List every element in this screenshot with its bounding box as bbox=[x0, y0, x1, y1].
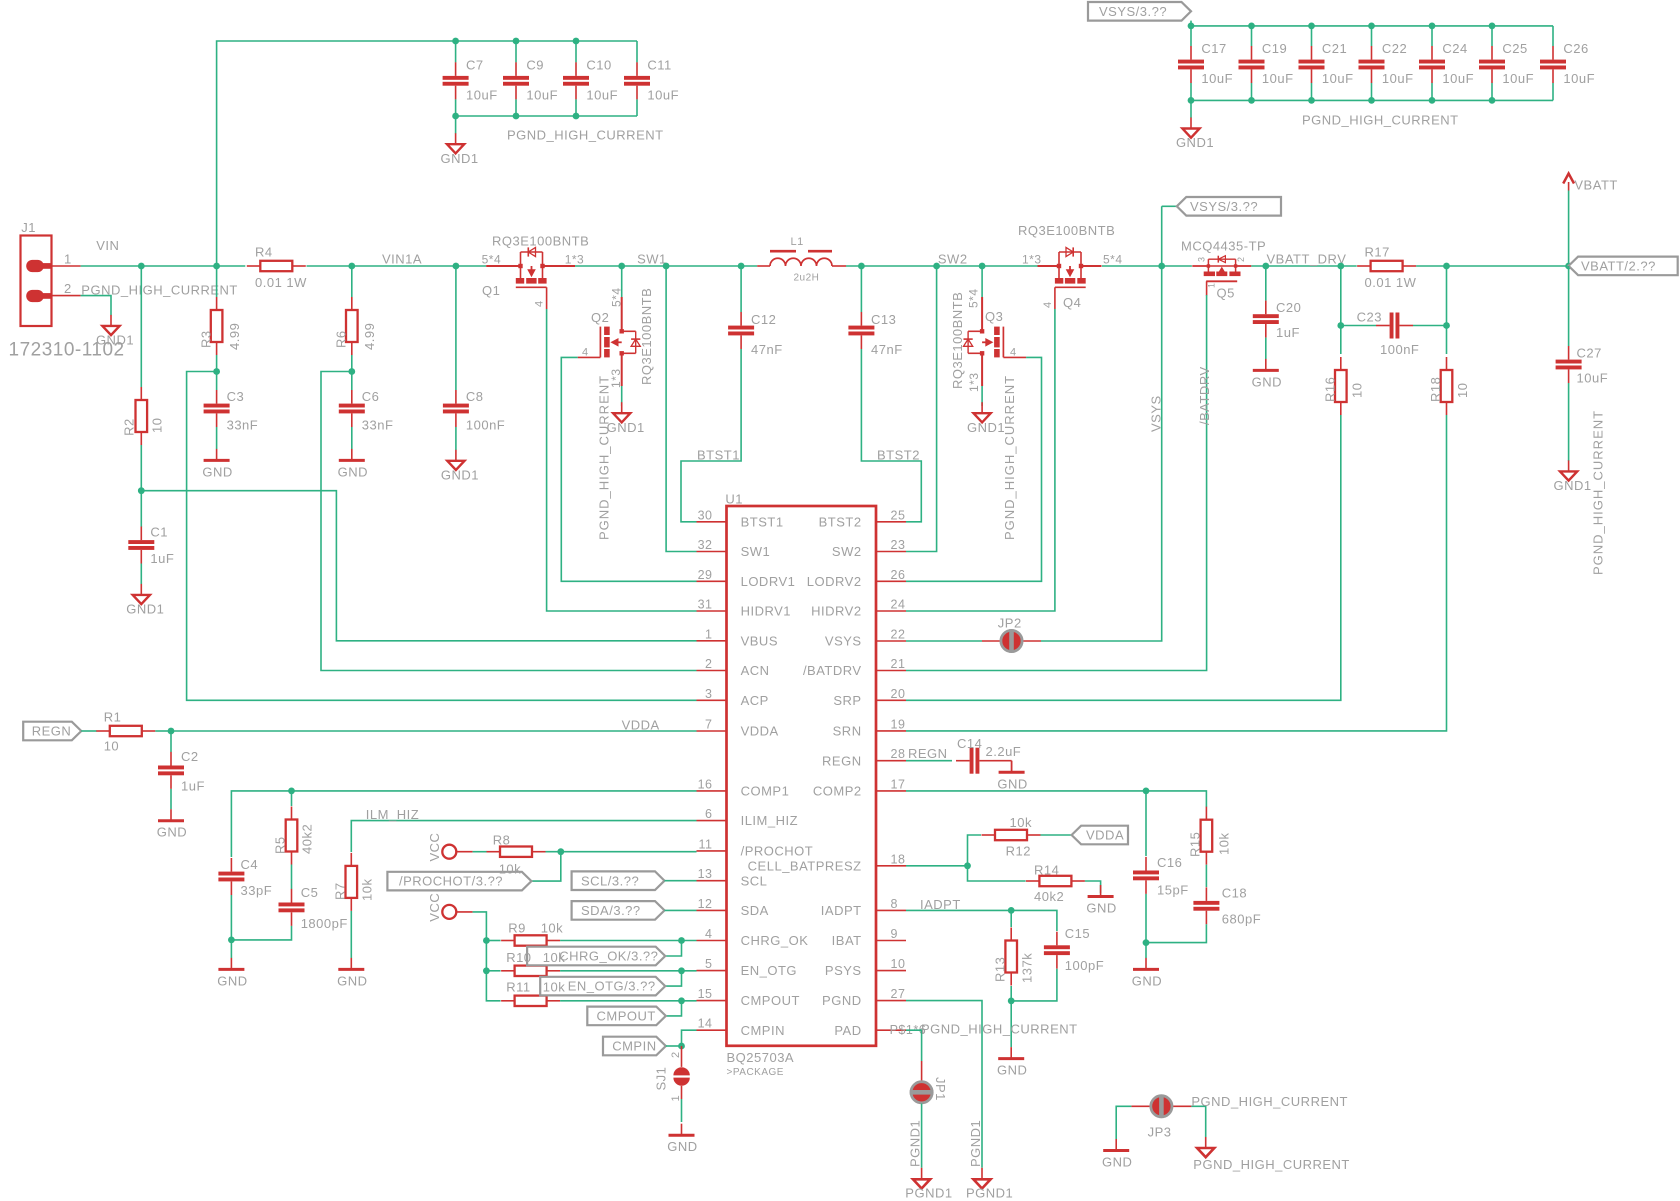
net label ILM_HIZ bbox=[366, 807, 419, 822]
svg-text:C2: C2 bbox=[181, 749, 199, 764]
svg-text:VCC: VCC bbox=[427, 833, 442, 862]
capacitor C16 bbox=[1133, 855, 1189, 898]
wire VIN to R2 bbox=[140, 266, 142, 387]
svg-text:R18: R18 bbox=[1428, 377, 1443, 402]
jumper JP3 bbox=[1131, 1095, 1191, 1140]
svg-text:10uF: 10uF bbox=[1577, 371, 1609, 386]
wire SDA bbox=[665, 909, 697, 911]
wire VDDA to C2 bbox=[170, 731, 172, 752]
svg-text:R6: R6 bbox=[334, 330, 349, 348]
svg-text:SRP: SRP bbox=[833, 693, 861, 708]
wire VIN top rail to C7-C11 bank bbox=[217, 41, 637, 266]
svg-text:ILIM_HIZ: ILIM_HIZ bbox=[741, 813, 798, 828]
svg-text:C23: C23 bbox=[1357, 309, 1382, 324]
resistor R13 bbox=[993, 928, 1035, 986]
svg-text:10uF: 10uF bbox=[1322, 71, 1354, 86]
svg-text:ILM_HIZ: ILM_HIZ bbox=[366, 807, 419, 822]
flag CMPIN bbox=[603, 1037, 666, 1056]
svg-text:Q4: Q4 bbox=[1063, 295, 1081, 310]
wire C2 to GND bbox=[170, 789, 172, 809]
svg-text:C12: C12 bbox=[751, 312, 776, 327]
wire C19 top stub bbox=[1251, 26, 1253, 46]
wire C7-C11 bottom rail bbox=[456, 115, 637, 117]
svg-text:COMP1: COMP1 bbox=[741, 784, 790, 799]
pin 17 COMP2 bbox=[813, 777, 906, 798]
ground GND under R7 bbox=[337, 958, 367, 989]
svg-text:C1: C1 bbox=[150, 525, 168, 540]
pin 11 /PROCHOT bbox=[697, 837, 814, 858]
wire JP3 to GND bbox=[1116, 1106, 1131, 1139]
svg-text:14: 14 bbox=[698, 1017, 713, 1031]
wire R1 to VDDA junction bbox=[155, 730, 171, 732]
svg-text:2u2H: 2u2H bbox=[794, 273, 820, 284]
resistor R8 bbox=[487, 832, 546, 857]
net label VIN bbox=[96, 238, 119, 253]
wire Q2 gate to LODRV1 bbox=[561, 357, 696, 581]
pin 27 PGND bbox=[822, 987, 906, 1008]
svg-text:5*4: 5*4 bbox=[1103, 252, 1123, 266]
svg-text:PGND1: PGND1 bbox=[908, 1120, 923, 1167]
wire VIN bbox=[81, 265, 246, 267]
svg-text:100pF: 100pF bbox=[1065, 958, 1104, 973]
junction C23 right bbox=[1443, 322, 1450, 329]
ground GND under C6 bbox=[338, 449, 368, 480]
svg-text:C11: C11 bbox=[647, 58, 671, 73]
svg-text:100nF: 100nF bbox=[466, 417, 505, 432]
svg-text:4.99: 4.99 bbox=[227, 323, 242, 350]
junction bbox=[1188, 23, 1195, 104]
svg-text:VIN1A: VIN1A bbox=[382, 252, 422, 267]
svg-text:BQ25703A: BQ25703A bbox=[727, 1050, 795, 1065]
wire Q1 gate to HIDRV1 bbox=[547, 309, 697, 611]
capacitor C12 bbox=[728, 312, 783, 357]
wire C26 top stub bbox=[1552, 26, 1554, 46]
wire C25 top stub bbox=[1491, 26, 1493, 46]
net label VDDA bbox=[622, 717, 660, 732]
wire R7 to GND bbox=[350, 911, 352, 958]
ground arrow PGND1 (right) bbox=[966, 1168, 1013, 1201]
svg-text:R10: R10 bbox=[506, 950, 531, 965]
svg-text:40k2: 40k2 bbox=[300, 824, 315, 854]
svg-text:VSYS: VSYS bbox=[825, 634, 862, 649]
wire C21 top stub bbox=[1311, 26, 1313, 46]
svg-text:10uF: 10uF bbox=[526, 87, 558, 102]
junction bbox=[1308, 23, 1315, 104]
pin 18 CELL_BATPRESZ bbox=[748, 852, 906, 873]
junction VIN/R3-toprail bbox=[213, 263, 220, 270]
junction CELL bbox=[964, 862, 971, 869]
svg-text:GND: GND bbox=[1086, 901, 1116, 916]
svg-text:PGND1: PGND1 bbox=[968, 1120, 983, 1167]
svg-text:10k: 10k bbox=[543, 950, 565, 965]
svg-text:BTST1: BTST1 bbox=[697, 448, 740, 463]
svg-text:GND: GND bbox=[157, 825, 187, 840]
svg-text:SW2: SW2 bbox=[832, 544, 862, 559]
svg-text:PGND1: PGND1 bbox=[905, 1186, 952, 1201]
pin 30 BTST1 bbox=[697, 508, 784, 529]
svg-text:CMPIN: CMPIN bbox=[612, 1039, 656, 1054]
junction VBATT/R18 bbox=[1443, 263, 1450, 270]
svg-text:VDDA: VDDA bbox=[622, 717, 660, 732]
svg-text:PGND_HIGH_CURRENT: PGND_HIGH_CURRENT bbox=[597, 375, 612, 540]
wire VIN1A bbox=[307, 265, 487, 267]
junction bbox=[1368, 23, 1375, 104]
net label PGND_HIGH_CURRENT (JP3 bottom) bbox=[1193, 1157, 1350, 1172]
svg-text:/BATDRV: /BATDRV bbox=[1197, 366, 1212, 425]
wire VIN to R3 bbox=[216, 266, 218, 297]
wire R10 to EN_OTG bbox=[560, 970, 696, 972]
resistor R2 bbox=[122, 387, 165, 445]
capacitor C24 bbox=[1419, 41, 1474, 86]
wire R13 to rail bbox=[1010, 986, 1012, 1047]
svg-text:GND: GND bbox=[1132, 973, 1162, 988]
pin 1 VBUS bbox=[697, 627, 779, 648]
svg-text:JP1: JP1 bbox=[933, 1077, 948, 1101]
junction CMPOUT bbox=[678, 997, 685, 1004]
svg-text:16: 16 bbox=[698, 777, 713, 791]
supply VCC (1) bbox=[427, 833, 473, 862]
wire CHRG_OK to flag bbox=[665, 941, 681, 957]
junction SW1/pin32 bbox=[663, 263, 670, 270]
svg-text:10uF: 10uF bbox=[1382, 71, 1414, 86]
svg-text:R9: R9 bbox=[508, 921, 526, 936]
svg-text:33nF: 33nF bbox=[362, 417, 394, 432]
svg-text:10k: 10k bbox=[541, 921, 563, 936]
wire SW1 to C12 bbox=[740, 266, 742, 312]
svg-text:3: 3 bbox=[1197, 256, 1207, 262]
pin 28 REGN bbox=[822, 747, 906, 768]
ground GND under C3 bbox=[202, 449, 232, 480]
capacitor C10 bbox=[563, 58, 618, 103]
wire R18 to SRN bbox=[906, 415, 1447, 731]
svg-text:C18: C18 bbox=[1222, 886, 1247, 901]
ground arrow PGND1 (left) bbox=[905, 1168, 952, 1201]
wire Q2 source to GND1 bbox=[621, 386, 623, 406]
wire R13 branch bbox=[1010, 910, 1012, 927]
svg-text:C21: C21 bbox=[1322, 41, 1347, 56]
svg-text:C16: C16 bbox=[1157, 855, 1182, 870]
svg-text:CMPIN: CMPIN bbox=[741, 1023, 785, 1038]
capacitor C13 bbox=[848, 312, 902, 357]
ground GND1 under C1 bbox=[126, 584, 164, 617]
wire VCC1 to R8 bbox=[473, 851, 487, 853]
svg-text:680pF: 680pF bbox=[1222, 912, 1261, 927]
wire IADPT bbox=[906, 910, 1057, 931]
wire C5 to GND rail bbox=[231, 926, 291, 940]
net label BTST2 bbox=[877, 448, 920, 463]
svg-text:VDDA: VDDA bbox=[1086, 828, 1124, 843]
svg-text:10: 10 bbox=[104, 739, 119, 754]
junction CMPIN/SJ1 bbox=[678, 1043, 685, 1050]
svg-text:1: 1 bbox=[64, 251, 72, 266]
svg-text:26: 26 bbox=[891, 568, 906, 582]
wire C15 to rail bbox=[1011, 969, 1057, 1001]
net label PGND1 (vertical right) bbox=[968, 1120, 983, 1167]
svg-text:R12: R12 bbox=[1006, 843, 1031, 858]
ground GND under R13 bbox=[997, 1047, 1027, 1078]
label R11 and value 10k bbox=[506, 979, 565, 994]
svg-text:GND: GND bbox=[667, 1139, 697, 1154]
pin 32 SW1 bbox=[697, 538, 771, 559]
wire C9 bottom stub bbox=[515, 99, 517, 116]
wire C7 top stub bbox=[455, 41, 457, 62]
pin 15 CMPOUT bbox=[697, 987, 800, 1008]
svg-text:R3: R3 bbox=[199, 330, 214, 348]
svg-text:GND: GND bbox=[202, 464, 232, 479]
svg-text:GND1: GND1 bbox=[1176, 135, 1214, 150]
wire VCC2 to resistors bbox=[473, 912, 501, 1001]
svg-text:10uF: 10uF bbox=[586, 87, 618, 102]
wire C17 bottom stub bbox=[1190, 83, 1192, 101]
svg-text:10k: 10k bbox=[360, 879, 375, 901]
pin J1.1 lead bbox=[52, 265, 81, 267]
wire C16 branch bbox=[1145, 791, 1147, 856]
wire C26 bottom stub bbox=[1552, 83, 1554, 101]
wire CELL to R12 bbox=[968, 835, 982, 866]
svg-text:CMPOUT: CMPOUT bbox=[597, 1009, 656, 1024]
svg-text:17: 17 bbox=[891, 777, 906, 791]
ground GND1 under C17 bbox=[1176, 100, 1214, 150]
wire JP1 to PGND1 arrow bbox=[921, 1104, 923, 1168]
transistor Q4 RQ3E100BNTB bbox=[1018, 223, 1123, 310]
svg-text:R13: R13 bbox=[993, 957, 1008, 982]
resistor R5 bbox=[273, 807, 315, 865]
svg-text:10uF: 10uF bbox=[1502, 71, 1534, 86]
wire COMP2 bbox=[906, 791, 1206, 807]
svg-text:/PROCHOT/3.??: /PROCHOT/3.?? bbox=[399, 874, 503, 889]
svg-text:SDA: SDA bbox=[741, 903, 769, 918]
wire CELL to R14 bbox=[968, 866, 1026, 881]
wire CMPOUT to flag bbox=[666, 1001, 682, 1016]
jumper JP2 bbox=[982, 616, 1041, 653]
wire VBATT node bbox=[1416, 265, 1569, 267]
svg-text:Q2: Q2 bbox=[591, 310, 609, 325]
svg-text:J1: J1 bbox=[21, 220, 36, 235]
capacitor C21 bbox=[1299, 41, 1354, 86]
ground GND1 under C7 bank bbox=[441, 116, 479, 166]
svg-text:R16: R16 bbox=[1323, 377, 1338, 402]
junction VDDA/C2 bbox=[168, 728, 175, 735]
flag /PROCHOT/3.?? bbox=[387, 872, 531, 891]
wire C19 bottom stub bbox=[1251, 83, 1253, 101]
svg-text:RQ3E100BNTB: RQ3E100BNTB bbox=[492, 234, 589, 249]
net label PGND_HIGH_CURRENT (J1.2) bbox=[81, 283, 238, 298]
svg-text:LODRV1: LODRV1 bbox=[741, 574, 796, 589]
junction bbox=[452, 38, 459, 120]
junction EN_OTG bbox=[678, 967, 685, 974]
flag VDDA bbox=[1072, 826, 1128, 845]
junction C4/C5 gnd bbox=[228, 937, 235, 944]
svg-text:R1: R1 bbox=[104, 709, 122, 724]
svg-text:/BATDRV: /BATDRV bbox=[803, 663, 862, 678]
resistor R4 bbox=[247, 245, 307, 291]
ground GND1 under J1 pin2 bbox=[96, 315, 134, 348]
svg-text:GND1: GND1 bbox=[967, 420, 1005, 435]
svg-text:C9: C9 bbox=[526, 58, 544, 73]
svg-text:R14: R14 bbox=[1034, 862, 1059, 877]
junction R13/C15 gnd bbox=[1008, 998, 1015, 1005]
net label PGND_HIGH_CURRENT (C27) bbox=[1591, 410, 1606, 575]
capacitor C6 bbox=[339, 389, 394, 432]
junction C16/C18 gnd bbox=[1143, 939, 1150, 946]
junction VBATT_DRV/C20 bbox=[1262, 263, 1269, 270]
capacitor C25 bbox=[1479, 41, 1534, 86]
wire SJ1 to GND bbox=[681, 1099, 683, 1122]
label R10 and value 10k bbox=[506, 950, 565, 965]
ground GND1 under C27 bbox=[1554, 460, 1592, 493]
jumper SJ1 bbox=[654, 1046, 690, 1102]
junction ACN bbox=[348, 368, 355, 375]
pin 22 VSYS bbox=[825, 628, 906, 649]
net label IADPT bbox=[920, 897, 961, 912]
pin 16 COMP1 bbox=[697, 777, 790, 798]
svg-text:PGND: PGND bbox=[822, 993, 862, 1008]
svg-text:11: 11 bbox=[699, 837, 713, 851]
inductor L1 2u2H bbox=[757, 236, 846, 284]
svg-text:1uF: 1uF bbox=[1276, 325, 1300, 340]
svg-text:L1: L1 bbox=[791, 236, 804, 248]
svg-text:C26: C26 bbox=[1563, 41, 1588, 56]
wire C10 bottom stub bbox=[575, 99, 577, 116]
svg-text:1800pF: 1800pF bbox=[301, 916, 348, 931]
wire VBATT to C27 bbox=[1568, 266, 1570, 346]
flag SDA/3.?? bbox=[572, 901, 665, 920]
svg-text:10: 10 bbox=[1455, 383, 1470, 398]
supply arrow VBATT bbox=[1563, 174, 1618, 193]
svg-text:27: 27 bbox=[891, 987, 906, 1001]
wire J1.2 to GND1 bbox=[81, 296, 111, 316]
wire R9 left lead bbox=[486, 940, 500, 942]
wire C16 to gnd rail bbox=[1145, 894, 1147, 958]
svg-text:GND1: GND1 bbox=[126, 602, 164, 617]
pin P$1*6 PAD bbox=[834, 1023, 926, 1038]
svg-text:VIN: VIN bbox=[96, 238, 119, 253]
wire C18 to gnd rail bbox=[1146, 924, 1206, 942]
pin 10 PSYS bbox=[825, 957, 906, 978]
svg-text:10: 10 bbox=[1350, 383, 1365, 398]
svg-text:/PROCHOT: /PROCHOT bbox=[741, 844, 814, 859]
ground GND under C20 bbox=[1252, 359, 1282, 390]
wire ILIM_HIZ bbox=[351, 821, 696, 852]
svg-text:7: 7 bbox=[705, 718, 712, 732]
transistor Q5 MCQ4435-TP bbox=[1181, 239, 1266, 301]
resistor R12 bbox=[982, 815, 1041, 859]
wire R12 to VDDA flag bbox=[1041, 834, 1072, 836]
wire JP3 to PGND arrow bbox=[1191, 1106, 1205, 1137]
ground GND under SJ1 bbox=[667, 1124, 697, 1155]
pin 19 SRN bbox=[833, 717, 906, 738]
pin J1.2 lead bbox=[52, 295, 81, 297]
svg-text:VBATT: VBATT bbox=[1574, 177, 1617, 192]
svg-text:RQ3E100BNTB: RQ3E100BNTB bbox=[950, 292, 965, 389]
wire C25 bottom stub bbox=[1491, 83, 1493, 101]
svg-text:29: 29 bbox=[698, 568, 713, 582]
resistor R14 bbox=[1026, 862, 1085, 904]
svg-text:R15: R15 bbox=[1188, 832, 1203, 857]
wire R10 left lead bbox=[486, 970, 500, 972]
wire SW2 bbox=[846, 265, 1040, 267]
wire C24 top stub bbox=[1431, 26, 1433, 46]
junction VIN/R2 bbox=[138, 263, 145, 270]
svg-text:CMPOUT: CMPOUT bbox=[741, 993, 800, 1008]
svg-text:1uF: 1uF bbox=[150, 551, 174, 566]
svg-text:40k2: 40k2 bbox=[1034, 889, 1064, 904]
svg-text:REGN: REGN bbox=[908, 746, 948, 761]
wire ACN to pin2 bbox=[321, 372, 697, 671]
pin 25 BTST2 bbox=[819, 508, 906, 529]
svg-text:RQ3E100BNTB: RQ3E100BNTB bbox=[1018, 223, 1115, 238]
wire PAD to JP1 bbox=[906, 1030, 922, 1061]
wire C22 bottom stub bbox=[1371, 83, 1373, 101]
wire R2 to C1 junction bbox=[140, 445, 142, 527]
wire C11 top stub bbox=[636, 41, 638, 62]
net label VIN1A bbox=[382, 252, 422, 267]
wire R18 branch bbox=[1446, 266, 1448, 354]
svg-text:23: 23 bbox=[891, 538, 906, 552]
wire R15 to C18 bbox=[1205, 865, 1207, 887]
svg-text:CHRG_OK/3.??: CHRG_OK/3.?? bbox=[559, 949, 658, 964]
svg-text:Q5: Q5 bbox=[1217, 286, 1235, 301]
svg-text:33pF: 33pF bbox=[241, 883, 273, 898]
svg-text:EN_OTG/3.??: EN_OTG/3.?? bbox=[568, 979, 656, 994]
capacitor C9 bbox=[503, 58, 558, 103]
svg-text:C15: C15 bbox=[1065, 926, 1090, 941]
svg-text:31: 31 bbox=[698, 598, 713, 612]
junction SW2/Q3 bbox=[979, 263, 986, 270]
svg-text:30: 30 bbox=[698, 508, 713, 522]
svg-text:1: 1 bbox=[1207, 282, 1217, 288]
flag VSYS/3.?? (mid) bbox=[1162, 197, 1281, 216]
svg-text:CHRG_OK: CHRG_OK bbox=[741, 933, 809, 948]
pin 29 LODRV1 bbox=[697, 568, 796, 589]
wire C22 top stub bbox=[1371, 26, 1373, 46]
svg-text:ACN: ACN bbox=[741, 663, 770, 678]
junction ACP bbox=[213, 368, 220, 375]
ground GND1 under C8 bbox=[441, 450, 479, 483]
wire VIN1A to R6 bbox=[351, 266, 353, 297]
wire C21 bottom stub bbox=[1311, 83, 1313, 101]
svg-text:PGND_HIGH_CURRENT: PGND_HIGH_CURRENT bbox=[921, 1022, 1078, 1037]
svg-text:22: 22 bbox=[891, 628, 906, 642]
svg-text:SJ1: SJ1 bbox=[654, 1067, 669, 1091]
svg-text:R5: R5 bbox=[273, 836, 288, 854]
wire R16 branch bbox=[1340, 266, 1342, 354]
svg-text:24: 24 bbox=[891, 598, 906, 612]
capacitor C5 bbox=[279, 885, 348, 931]
svg-text:Q3: Q3 bbox=[985, 309, 1003, 324]
svg-text:4.99: 4.99 bbox=[362, 323, 377, 350]
capacitor C2 bbox=[158, 749, 205, 793]
svg-text:2: 2 bbox=[670, 1051, 682, 1058]
svg-text:REGN: REGN bbox=[32, 724, 72, 739]
junction SW2/C13 bbox=[858, 263, 865, 270]
svg-text:PGND1: PGND1 bbox=[966, 1186, 1013, 1201]
resistor R18 bbox=[1428, 357, 1470, 415]
wire C24 bottom stub bbox=[1431, 83, 1433, 101]
svg-text:10uF: 10uF bbox=[1563, 71, 1595, 86]
svg-text:15: 15 bbox=[698, 987, 713, 1001]
svg-text:8: 8 bbox=[891, 897, 898, 911]
svg-text:2: 2 bbox=[705, 657, 712, 671]
wire VSYS node bbox=[1102, 265, 1192, 267]
svg-text:CELL_BATPRESZ: CELL_BATPRESZ bbox=[748, 858, 862, 873]
wire VBATT_DRV to C20 bbox=[1265, 266, 1267, 301]
svg-text:4: 4 bbox=[534, 300, 546, 307]
wire C27 to GND1 bbox=[1568, 383, 1570, 461]
svg-text:13: 13 bbox=[698, 867, 713, 881]
wire PROCHOT to flag bbox=[531, 852, 560, 881]
wire SCL bbox=[665, 880, 697, 882]
